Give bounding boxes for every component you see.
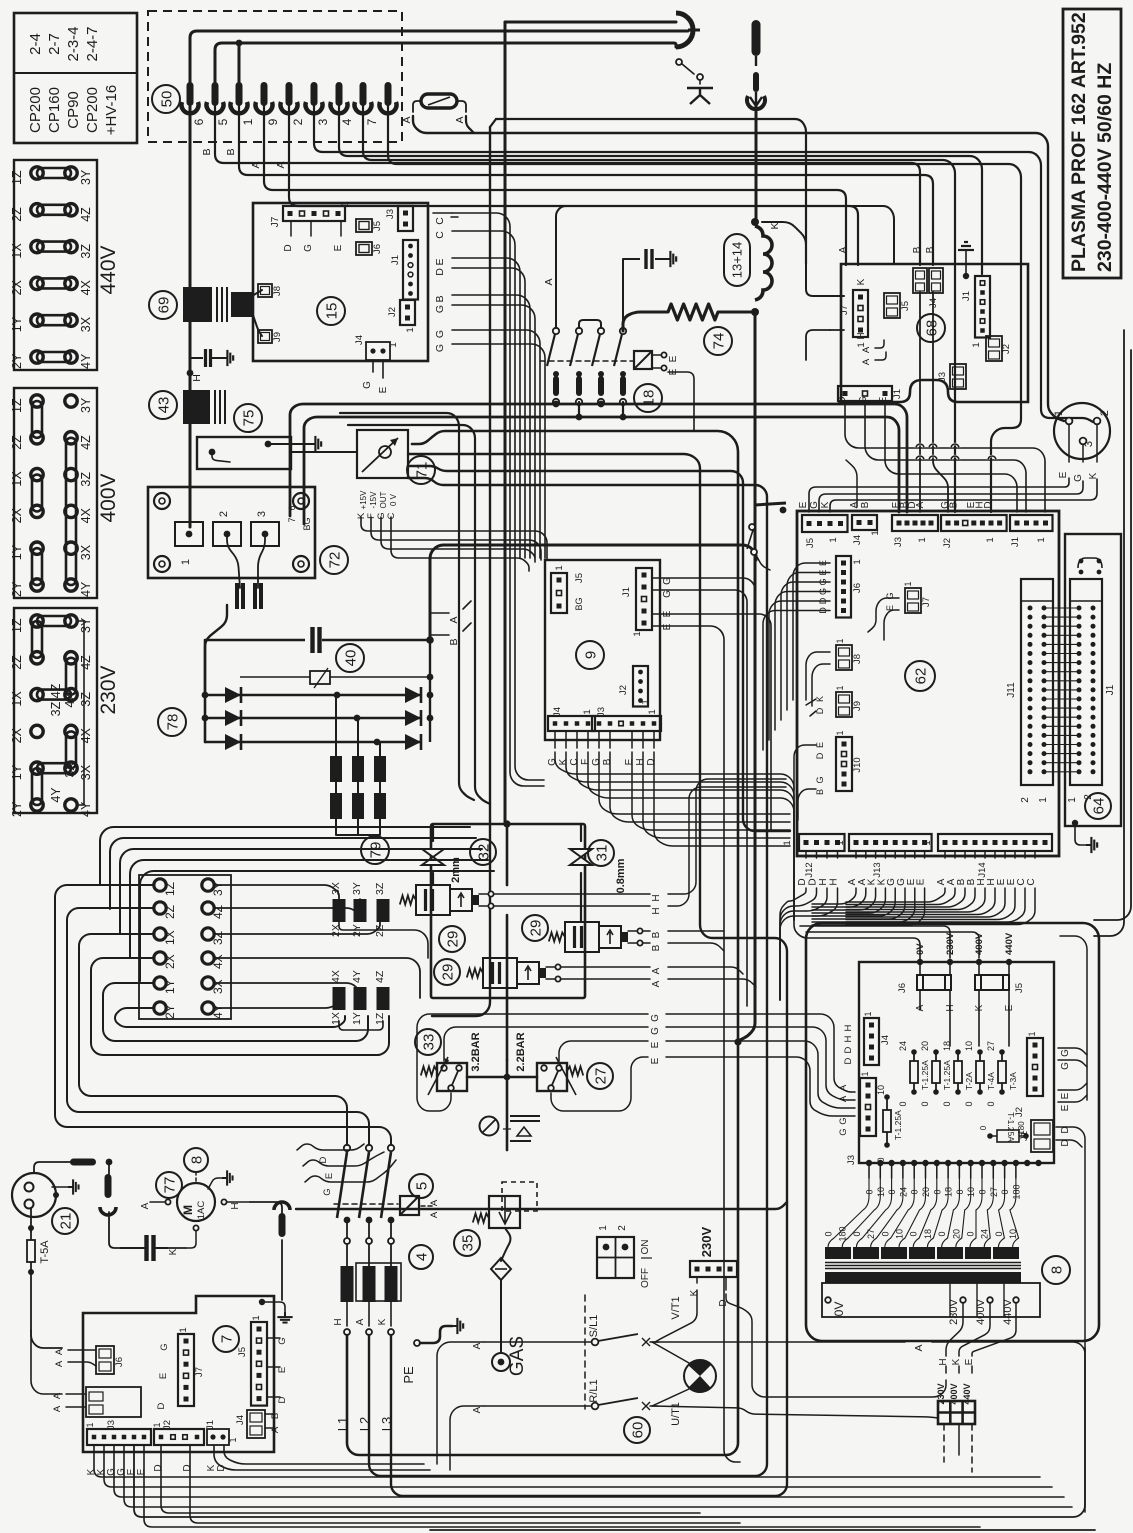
bottom edge line (430, 1529, 1095, 1531)
ground right of 75 (310, 436, 321, 452)
pb E wire a (1058, 1083, 1087, 1090)
ground board 64 (1072, 820, 1097, 853)
feed line y849 (120, 849, 482, 933)
junction DC bus (426, 636, 434, 644)
ground socket (68, 1179, 79, 1194)
junction fuse bottom (28, 1269, 34, 1275)
svg-text:D: D (156, 1402, 167, 1409)
junction pole2 bus (576, 414, 583, 421)
wire 62J6 pin5 (763, 611, 830, 751)
wire 62J13 pin7 (924, 851, 926, 858)
svg-text:J4: J4 (552, 707, 563, 717)
label A contactor (543, 278, 555, 285)
label C 62J14 (1026, 878, 1037, 885)
switch 5 designator (409, 1174, 433, 1198)
matrix loop 3 (215, 922, 380, 934)
svg-text:J10: J10 (852, 757, 863, 772)
wire psw G2 (444, 1027, 648, 1061)
svg-text:E: E (378, 386, 389, 393)
svg-text:1Z: 1Z (10, 398, 24, 413)
contactor 18 pole 3 (592, 328, 604, 405)
svg-text:20: 20 (951, 1229, 961, 1239)
svg-text:PLASMA PROF 162 ART.952: PLASMA PROF 162 ART.952 (1068, 12, 1090, 272)
svg-text:J1: J1 (205, 1420, 216, 1430)
needle valve 32 (422, 849, 444, 865)
label D 62J9 (815, 707, 825, 714)
svg-text:CP90: CP90 (65, 91, 82, 129)
svg-text:A: A (275, 161, 287, 168)
wire lug c down (281, 1240, 283, 1300)
control board 9 (545, 560, 661, 740)
voltage selector grid (938, 1401, 975, 1424)
svg-text:4Z: 4Z (79, 207, 93, 222)
label A blk8 (913, 1344, 925, 1351)
svg-text:1: 1 (835, 685, 845, 690)
terminal block 400V (10, 388, 120, 598)
wire 69 to J9 (252, 312, 262, 336)
label L1 (335, 1417, 350, 1431)
svg-text:3Z: 3Z (79, 244, 93, 259)
svg-text:B: B (860, 501, 871, 508)
svg-text:K: K (856, 278, 867, 285)
svg-text:1X: 1X (10, 471, 24, 487)
bus y469 (408, 466, 790, 831)
svg-text:S/L1: S/L1 (588, 1315, 600, 1338)
label E 62J13 (916, 878, 927, 885)
label K pb (974, 1004, 985, 1011)
svg-text:E: E (650, 1041, 661, 1048)
tap 440V power board (1004, 932, 1015, 965)
svg-text:E: E (1058, 471, 1069, 478)
label H pbJ4 (843, 1024, 854, 1031)
label 0.8mm (615, 858, 627, 893)
svg-text:18: 18 (923, 1229, 933, 1239)
service socket 21 (12, 1173, 59, 1217)
svg-text:J6: J6 (852, 583, 863, 593)
label B2v (651, 944, 662, 951)
wire 62J12 drop2 (780, 888, 827, 1000)
svg-text:D: D (182, 1464, 193, 1471)
fuse J5 power board (975, 975, 1025, 993)
wire 62J14 drop7 (846, 888, 1015, 920)
svg-text:J4: J4 (852, 535, 863, 545)
wire 62J13 pin5 (904, 851, 906, 858)
svg-text:1: 1 (1053, 410, 1065, 416)
contactor 18 pole 2 (570, 328, 582, 405)
svg-text:G: G (362, 381, 373, 389)
label D 7J2b (182, 1464, 193, 1471)
valve 35 designator (454, 1230, 480, 1256)
bb K2 (104, 1445, 1052, 1487)
label 3.2BAR (470, 1032, 482, 1071)
label GAS (507, 1336, 528, 1376)
svg-text:A: A (429, 1199, 440, 1206)
svg-text:1: 1 (863, 1011, 873, 1016)
label G 68 (858, 396, 869, 404)
svg-text:440V: 440V (97, 245, 120, 294)
wire A to RL1 (484, 1405, 591, 1407)
label D pbJ1a (1060, 1126, 1071, 1133)
feed line y871 (140, 871, 494, 981)
wire BG a (452, 295, 530, 558)
label C 62J14 (1016, 878, 1027, 885)
wire 62J6 pin1 (787, 573, 830, 711)
svg-text:0: 0 (824, 1231, 834, 1236)
svg-text:H: H (333, 1318, 344, 1325)
main switch & fuse pole 2 (359, 1145, 376, 1392)
wire 62J14 pin2 (964, 851, 966, 858)
svg-text:G: G (662, 590, 673, 598)
label B 62J4 (860, 501, 871, 508)
label A pb (915, 1004, 926, 1011)
wire AA stub2 (875, 352, 886, 360)
svg-text:J1: J1 (1010, 537, 1021, 547)
label A 62J14 (946, 878, 957, 885)
svg-text:4Z: 4Z (211, 905, 225, 919)
svg-text:4: 4 (413, 1253, 430, 1261)
label A pole2 (355, 1318, 366, 1325)
transformer tap labels (824, 1166, 1019, 1247)
svg-text:T-1.25A: T-1.25A (920, 1060, 930, 1090)
capacitors below board 72 (237, 583, 261, 609)
svg-text:10: 10 (895, 1229, 905, 1239)
junction gas top (503, 820, 510, 827)
right edge v2 (1094, 350, 1131, 920)
pb top entry a (794, 920, 920, 960)
wire 71 F (371, 517, 541, 560)
solenoid valve 29 top-left (400, 885, 494, 915)
loop row1 to pole3 (55, 885, 391, 1145)
svg-text:D: D (983, 501, 994, 508)
svg-text:K: K (769, 222, 781, 229)
svg-text:2X: 2X (10, 507, 24, 523)
wire H 68 left (806, 330, 830, 360)
wire 9J4 down2 (577, 752, 794, 920)
label D 68 (837, 396, 848, 403)
svg-text:71: 71 (413, 462, 430, 479)
wire pole4 drop (622, 402, 624, 417)
label E board9 bottom (624, 758, 635, 765)
label H 62J14 (986, 878, 997, 885)
label A 68 (838, 246, 849, 253)
wire AA stub1 (875, 340, 884, 348)
svg-text:B: B (225, 148, 237, 155)
label AA 68a (861, 346, 872, 353)
svg-text:A: A (52, 1405, 63, 1412)
svg-text:PE: PE (401, 1366, 416, 1384)
svg-text:J3: J3 (106, 1420, 117, 1430)
bb KD2 (224, 1445, 424, 1464)
junction electrode to trunk (734, 1038, 741, 1045)
wire 35 down (501, 1228, 510, 1261)
label G 7J5 (277, 1337, 288, 1344)
bus y454 (391, 454, 787, 1496)
wire 62J14 drop6 (846, 888, 1005, 917)
svg-text:D: D (153, 1464, 164, 1471)
svg-text:0: 0 (979, 1125, 988, 1130)
snubber branch 2 of 79 (352, 718, 364, 835)
svg-text:68: 68 (923, 320, 940, 337)
label D right of 15 (434, 268, 446, 276)
svg-text:1: 1 (835, 840, 846, 845)
svg-text:E: E (650, 1057, 661, 1064)
label 2mm (450, 857, 462, 883)
power board inner box (859, 962, 1054, 1163)
aux switch 5 xbox (400, 1196, 419, 1215)
svg-text:G: G (815, 776, 825, 783)
wire psw G1b (666, 1014, 855, 1092)
loop row3 to pole1 (79, 934, 347, 1145)
label C right of 15 (434, 217, 446, 225)
svg-text:3X: 3X (79, 544, 93, 560)
junction psw (504, 1074, 511, 1081)
svg-text:1X: 1X (10, 691, 24, 707)
svg-text:T-5A: T-5A (39, 1240, 51, 1264)
svg-text:29: 29 (444, 931, 461, 948)
svg-text:T-4A: T-4A (986, 1072, 996, 1090)
svg-text:2Y: 2Y (163, 1004, 177, 1019)
svg-text:0.8mm: 0.8mm (615, 858, 627, 893)
label H board9 bottom (635, 758, 646, 765)
svg-text:J2: J2 (162, 1420, 173, 1430)
svg-text:D: D (843, 1046, 854, 1053)
svg-text:27: 27 (866, 1229, 876, 1239)
svg-text:1: 1 (835, 730, 845, 735)
wire motor H (227, 1201, 250, 1203)
wire M gnd (208, 1178, 222, 1189)
svg-text:A: A (915, 1004, 926, 1011)
junction lug (106, 1159, 113, 1166)
label E psw 1041 (650, 1041, 661, 1048)
ON OFF switch (597, 1225, 652, 1288)
wire 9 GG right1 (652, 578, 755, 1010)
wire hops near 62 (916, 444, 996, 460)
label G 62J2 (940, 501, 951, 509)
label G pbJ3 (838, 1128, 849, 1135)
wire sel 440 from term (972, 1303, 1016, 1356)
label K board9 bottom (558, 758, 569, 765)
wire 62J14 pin3 (974, 851, 976, 858)
wire valve b pipe2 (580, 824, 582, 841)
label K motor (168, 1248, 179, 1255)
svg-text:J3: J3 (596, 707, 607, 717)
bb D1 (161, 1445, 700, 1513)
bb D2 (190, 1445, 740, 1523)
stair v475 (348, 425, 490, 804)
62 J9 (835, 685, 863, 717)
label B1v (651, 931, 662, 938)
wire B2v (643, 942, 650, 944)
svg-text:21: 21 (57, 1213, 74, 1230)
terminal block 440V (10, 160, 120, 370)
svg-text:230V: 230V (97, 665, 120, 714)
psu module 71 with +15V -15V OUT 0V pins (356, 430, 408, 520)
label D 62J2 (983, 501, 994, 508)
label A1v (651, 967, 662, 974)
svg-text:A: A (838, 246, 849, 253)
svg-text:29: 29 (527, 920, 544, 937)
wire 62J13 pin4 (894, 851, 896, 858)
label D sense (318, 1156, 329, 1163)
svg-text:3Z: 3Z (374, 882, 386, 895)
svg-text:4Y: 4Y (79, 581, 93, 597)
svg-text:2Z: 2Z (163, 905, 177, 919)
label D 7J2a (153, 1464, 164, 1471)
label K pole3 (377, 1318, 388, 1325)
svg-text:A: A (54, 1348, 65, 1355)
fuse T-4A tap 10 (964, 1041, 996, 1107)
caps lower bus (339, 1021, 383, 1030)
svg-text:J3: J3 (846, 1155, 857, 1165)
wire 68 G down (865, 402, 1026, 512)
svg-text:CP200: CP200 (27, 87, 44, 133)
label E sense (324, 1173, 335, 1179)
svg-text:2-4-7: 2-4-7 (84, 26, 101, 61)
pin 6 of connector 50 (192, 82, 224, 125)
wire VT1 A line2 (932, 1342, 1085, 1512)
wire fuse down (31, 1270, 62, 1348)
capacitor 3Z/2Z (374, 882, 390, 937)
bb K1 (94, 1445, 1040, 1477)
wire 9 GG right2 (652, 590, 747, 1006)
wire 9J3 down2 (632, 752, 790, 830)
svg-text:4Z: 4Z (79, 655, 93, 670)
7 relay (86, 1387, 141, 1417)
svg-text:CP160: CP160 (46, 87, 63, 133)
label E pb (1004, 1004, 1015, 1011)
svg-text:G: G (650, 1027, 661, 1035)
wire snubber bottom bus (336, 834, 380, 836)
wire 62J14 pin9 (1034, 851, 1036, 858)
wire 9J4 down3 (588, 752, 794, 920)
wire 75 right (291, 451, 357, 453)
svg-text:1: 1 (828, 537, 839, 542)
junction diode bus (202, 692, 434, 746)
svg-text:G: G (434, 344, 446, 352)
wire UT1 to selector (652, 1406, 938, 1418)
wire 9J3 down0 (599, 752, 790, 814)
svg-text:0: 0 (880, 1231, 890, 1236)
wire 15 C to left (451, 216, 458, 218)
snubber branch 3 of 79 (374, 741, 386, 835)
transformer 69 designator (149, 291, 177, 319)
svg-text:4: 4 (340, 118, 354, 125)
PE terminal (401, 1318, 463, 1384)
wire sel K (958, 1366, 960, 1373)
svg-text:A: A (651, 967, 662, 974)
svg-text:J3: J3 (893, 537, 904, 547)
pin 1 of connector 50 (241, 82, 273, 125)
bb E2 (144, 1445, 980, 1527)
svg-text:1: 1 (640, 699, 651, 704)
label H sel (938, 1358, 949, 1365)
wire K 68 (806, 264, 844, 296)
wire 62J13 drop7 (812, 888, 925, 925)
svg-text:G: G (434, 330, 446, 338)
svg-text:1: 1 (554, 565, 565, 570)
caps upper bus (339, 922, 428, 958)
7 J4 (235, 1410, 265, 1438)
matrix loop 6 (215, 998, 339, 1008)
svg-text:60: 60 (629, 1422, 646, 1439)
wire 7 A4 (66, 1406, 86, 1408)
label 2.2BAR (515, 1032, 527, 1071)
wire pole3 drop (600, 402, 602, 404)
wire 62J13 pin6 (914, 851, 916, 858)
wire 15 J4 E (382, 360, 384, 378)
label G sense (322, 1188, 333, 1195)
svg-text:2: 2 (218, 511, 230, 517)
svg-text:D: D (283, 244, 294, 251)
wire socket down (30, 1208, 32, 1232)
wire 62J13 pin3 (884, 851, 886, 858)
pb J1 (1019, 1120, 1053, 1152)
svg-text:3X: 3X (330, 882, 342, 895)
svg-text:A: A (913, 1344, 925, 1351)
label K 7J3pin (96, 1468, 107, 1475)
label K sel (951, 1358, 962, 1365)
rectifier output A B (427, 601, 471, 742)
wire 62J13 drop2 (812, 888, 876, 910)
svg-text:3X: 3X (79, 764, 93, 780)
wire 62J14 drop8 (846, 888, 1025, 922)
main switch & fuse pole 3 (381, 1145, 398, 1392)
bus y485 (369, 478, 767, 1476)
pb bottom pads (866, 1160, 1042, 1166)
main pcb 62 outline (797, 511, 1059, 856)
diode row 2 of rectifier 78 (205, 710, 421, 726)
svg-text:24: 24 (898, 1041, 908, 1051)
svg-text:G: G (650, 1014, 661, 1022)
wire tapE (1008, 962, 1010, 975)
svg-text:E: E (668, 355, 679, 362)
connector 50 dashed outline (148, 11, 402, 142)
wire valve B1 (668, 930, 724, 932)
label GG board9 b (662, 590, 673, 598)
svg-text:H: H (843, 1024, 854, 1031)
tap 0V power board (915, 943, 926, 965)
label A SL1 (472, 1342, 483, 1349)
pin 3 of connector 50 (316, 82, 348, 125)
svg-text:J2: J2 (1001, 344, 1012, 354)
rectifier 78 designator (158, 708, 186, 736)
wire pin4 (363, 106, 955, 512)
svg-text:J2: J2 (942, 538, 953, 548)
62 J14 (922, 834, 1052, 878)
label K coil (769, 222, 781, 229)
svg-text:3Y: 3Y (211, 881, 225, 896)
pin blank of connector 50 (181, 82, 198, 113)
lug b (105, 1174, 112, 1198)
wire diode bus left (204, 640, 207, 742)
wire 62J14 pin7 (1014, 851, 1016, 858)
board 9 designator (576, 641, 604, 669)
wire B1v (643, 930, 650, 932)
wire 62J14 pin0 (944, 851, 946, 858)
svg-text:9: 9 (582, 651, 599, 659)
svg-text:E: E (434, 258, 446, 265)
ribbon J11-J1 (1044, 608, 1079, 772)
svg-text:62: 62 (912, 668, 929, 685)
svg-text:A: A (543, 278, 555, 285)
wire ED b (452, 268, 525, 558)
svg-text:C: C (569, 758, 580, 765)
svg-text:J5: J5 (900, 301, 911, 311)
wire fuseJ6b down (949, 990, 951, 1046)
svg-text:J13: J13 (872, 862, 883, 877)
svg-text:E: E (277, 1367, 288, 1373)
contactor 18 pole 1 (547, 328, 559, 405)
